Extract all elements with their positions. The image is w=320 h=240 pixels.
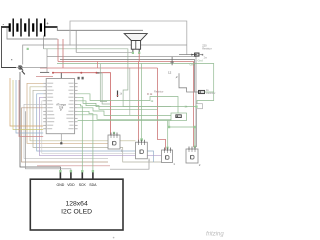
wire red rail y74 [53, 73, 111, 135]
node loop near R2 [196, 104, 203, 109]
wire battery negative to switch [2, 27, 17, 68]
wire left vertical 3 [16, 80, 43, 133]
wire green to Q2 [141, 64, 143, 144]
junction green pad Q1 [113, 132, 115, 134]
wire black rail y59.5 [60, 60, 195, 92]
speaker LS1 [124, 34, 147, 54]
junction dot red C [96, 72, 98, 74]
wire yellow [30, 87, 136, 141]
svg-text:I2C OLED: I2C OLED [61, 208, 92, 215]
wire red vertical x58 [57, 39, 59, 62]
wire green vertical from band A [100, 64, 107, 102]
junction green pad Q4 [194, 146, 196, 148]
svg-text:GND: GND [57, 183, 65, 187]
wire dark steps to R2 [179, 73, 195, 92]
wire rail y49 [44, 49, 172, 107]
junction green pad left [168, 126, 170, 128]
transistor Q3 [162, 148, 173, 163]
transistor Q2 [136, 140, 148, 159]
wire left vertical 4 [19, 80, 43, 137]
component marks right of IC [78, 77, 80, 80]
svg-text:,2: ,2 [175, 75, 178, 79]
wire green staircase w2 [78, 101, 158, 110]
svg-text:2w: 2w [204, 56, 207, 60]
svg-text:Gnd: Gnd [190, 63, 196, 67]
wire left vertical 2 [13, 80, 43, 130]
wire IC top pin [60, 73, 62, 79]
svg-text:Gnd: Gnd [198, 59, 204, 63]
transistor Q4 [186, 147, 198, 164]
wire gray vertical x129.8 [129, 68, 131, 115]
wire red link x97.5 [97, 62, 99, 69]
junction green Q2 [140, 138, 143, 141]
wire orange [27, 83, 108, 143]
svg-text:+: + [46, 21, 49, 26]
svg-text:128x64: 128x64 [65, 201, 88, 208]
OLED display module [30, 170, 123, 230]
wire purple [40, 97, 162, 155]
IC U1 microcontroller [43, 79, 77, 144]
wire red lower harness [37, 165, 110, 167]
wire bottom link [110, 159, 149, 169]
wire speaker left pin rail y52.6 [76, 53, 133, 54]
wire vertical x43.5 [43, 36, 45, 49]
wire brown [24, 104, 108, 158]
wire speaker plus red [138, 53, 140, 61]
wire red rail y68 [40, 67, 158, 69]
wire switch to OLED GND [20, 72, 60, 171]
wire green R3 to Q4 [169, 121, 195, 150]
wire red rail y61.5 [58, 62, 194, 148]
wire gray harness [33, 90, 162, 162]
svg-text:P: P [60, 108, 62, 112]
battery BT1 4xAA pack [1, 19, 58, 37]
svg-text:fritzing: fritzing [206, 232, 224, 238]
resistor R3 in green loop [171, 113, 187, 121]
svg-text:12: 12 [168, 71, 172, 75]
wire green staircase w3 [78, 108, 171, 116]
wire vertical x47 [46, 49, 48, 73]
junction green pad Q3 [166, 147, 168, 149]
wire green SCK [78, 104, 83, 171]
wire green to Q3 [167, 121, 169, 151]
wire dark harness [42, 101, 136, 154]
junction green pad at rail end [195, 106, 197, 108]
wire green staircase w0 [78, 94, 178, 113]
resistor R5 vertical [117, 91, 119, 98]
wire gray rail y56.5 to Q4 [47, 57, 196, 148]
switch S1 [11, 59, 47, 74]
junction green pad right [194, 126, 196, 128]
node arrow right of IC [98, 72, 102, 74]
wire green vertical from band B [102, 73, 110, 104]
wire VDD feed [26, 111, 71, 171]
svg-text:SCK: SCK [79, 183, 87, 187]
wire dark tee at IC top left [40, 71, 49, 73]
wire battery positive down [57, 27, 143, 30]
wire red vertical x63 [62, 39, 64, 68]
wire green staircase w4 [78, 115, 171, 120]
wire green staircase w1 [78, 97, 197, 106]
svg-text:R 1k: R 1k [147, 92, 153, 96]
wire blue [37, 94, 154, 162]
svg-text:Resistor: Resistor [206, 91, 216, 95]
junction dot red A [52, 72, 54, 74]
junction dot IC bottom pin [60, 142, 62, 144]
wire positive rail y45.5 [23, 45, 187, 65]
junction dot red B [80, 72, 82, 74]
dot below OLED [113, 237, 115, 239]
wire red to Q2 [138, 62, 140, 144]
transistor Q1 [108, 133, 120, 150]
resistor R1 [179, 53, 203, 56]
wire red stub near pin1 [36, 76, 53, 78]
wire gray frame top loop [70, 21, 187, 55]
wire green rail y63.5 [57, 64, 214, 104]
wire red lower harness [22, 108, 109, 162]
svg-text:Resistor: Resistor [202, 46, 212, 50]
wire gray down to Q4 [196, 109, 198, 147]
wire battery bottom gray rail [7, 28, 58, 39]
wire branch to speaker minus [75, 30, 77, 52]
wire green SDA [78, 111, 93, 171]
svg-text:SDA: SDA [89, 183, 97, 187]
wire left verticals small [10, 78, 43, 126]
wire red to Q3 [158, 68, 166, 152]
svg-text:Resistor: Resistor [154, 90, 164, 94]
svg-text:VDD: VDD [67, 183, 75, 187]
resistor R2 [195, 90, 214, 93]
junction green pad on rail [27, 48, 29, 50]
wire green rail g7 [78, 120, 171, 122]
capacitor C1 small [171, 57, 173, 65]
